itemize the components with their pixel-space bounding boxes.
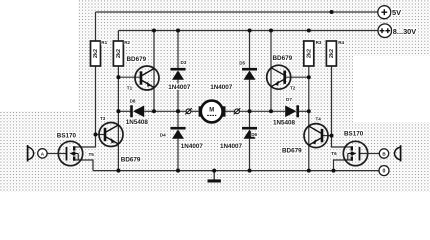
- terminal +5V: [378, 6, 401, 19]
- diode D6 1N4007: [220, 127, 258, 150]
- wire T1 base: [118, 76, 140, 78]
- svg-text:R2: R2: [124, 40, 130, 45]
- diode D5 1N4007: [210, 61, 257, 91]
- svg-text:BD679: BD679: [127, 56, 147, 63]
- svg-text:T2: T2: [290, 86, 296, 91]
- node 0 (ground terminal): [379, 166, 389, 176]
- svg-text:BD679: BD679: [273, 55, 293, 62]
- wire R1 column to T3 base and T5 drain: [81, 66, 96, 147]
- wire D4 column top: [177, 111, 179, 127]
- svg-text:T5: T5: [89, 152, 95, 157]
- wire 8...30V rail: [118, 30, 378, 32]
- svg-text:1N4007: 1N4007: [181, 143, 204, 150]
- wire motor row to left connector: [154, 110, 186, 112]
- resistor R4 2k2: [326, 40, 344, 66]
- motor M: [199, 101, 226, 123]
- wire D7 cathode to T4 collector node: [299, 110, 309, 112]
- wire input A to T5 gate: [47, 153, 58, 155]
- wire 5V rail corner down to R1: [95, 12, 97, 41]
- svg-text:0: 0: [383, 169, 386, 175]
- svg-text:8...30V: 8...30V: [393, 27, 416, 36]
- wire R2 column through T1 base, motor row, T3 to ground rail: [117, 66, 119, 171]
- svg-text:1N4007: 1N4007: [168, 84, 191, 91]
- svg-text:BD679: BD679: [282, 147, 302, 154]
- svg-text:T6: T6: [331, 151, 337, 156]
- wire D4 column bottom: [177, 139, 179, 171]
- svg-text:2k2: 2k2: [93, 49, 99, 58]
- wire rail2 corner down to R2: [117, 31, 119, 42]
- wire D6 column bottom: [249, 139, 251, 171]
- wire ground rail: [93, 170, 379, 172]
- connector right of motor: [234, 108, 241, 114]
- resistor R2 2k2: [113, 40, 130, 66]
- transistor T1 BD679: [127, 56, 160, 91]
- svg-text:T3: T3: [100, 116, 106, 121]
- wire D3 column bottom: [177, 80, 179, 112]
- wire T5 source to ground rail: [81, 160, 93, 171]
- wire D5 column bottom: [249, 80, 251, 112]
- wire right connector to motor right node: [239, 110, 285, 112]
- resistor R1 2k2: [91, 40, 108, 66]
- wire motor row node left: [118, 110, 130, 112]
- ground: [208, 171, 221, 183]
- wire T3 base stub: [96, 134, 105, 136]
- svg-text:5V: 5V: [392, 8, 401, 17]
- svg-text:D5: D5: [239, 61, 245, 66]
- diode D4 1N4007: [160, 127, 204, 150]
- svg-text:1N5408: 1N5408: [126, 119, 149, 126]
- transistor T4 BD679: [282, 117, 328, 155]
- svg-text:D8: D8: [130, 99, 136, 104]
- node A: [38, 149, 47, 158]
- svg-text:2k2: 2k2: [116, 49, 122, 58]
- svg-text:1N4007: 1N4007: [220, 143, 243, 150]
- terminal 8...30V: [378, 24, 416, 38]
- svg-text:T4: T4: [316, 117, 322, 122]
- wire T2 base: [286, 76, 309, 78]
- wire D6 column top: [249, 111, 251, 127]
- svg-text:D7: D7: [286, 97, 292, 102]
- input flag A: [28, 145, 34, 162]
- wire left connector to motor: [191, 110, 199, 112]
- svg-text:D3: D3: [181, 60, 187, 65]
- transistor T3 BD679: [99, 116, 141, 163]
- svg-text:D4: D4: [160, 133, 166, 138]
- wire T4 base stub: [323, 135, 332, 137]
- wire motor to right connector: [226, 110, 235, 112]
- wire T6 gate to input B: [368, 153, 379, 155]
- svg-text:BS170: BS170: [57, 132, 77, 139]
- connector left of motor: [185, 108, 192, 114]
- node B: [379, 149, 388, 158]
- svg-text:R1: R1: [101, 40, 107, 45]
- wire D3 column top: [177, 31, 179, 69]
- svg-text:D6: D6: [251, 132, 257, 137]
- mosfet T6 BS170: [331, 131, 368, 166]
- svg-text:T1: T1: [127, 86, 133, 91]
- wire T1 collector-emitter vertical: [153, 31, 155, 112]
- transistor T2 BD679: [267, 55, 296, 91]
- diode D7 1N5408: [273, 97, 299, 127]
- svg-text:BS170: BS170: [344, 131, 364, 138]
- svg-text:R4: R4: [338, 40, 344, 45]
- wire R3 column through T2 base, motor row, T4 to ground rail: [308, 66, 310, 171]
- wire T6 source to ground rail: [334, 160, 346, 171]
- diode D8 1N5408: [126, 99, 149, 127]
- wire D8 to T1 emitter node: [144, 110, 154, 112]
- wire R4 column to T4 base and T6 drain: [332, 66, 345, 147]
- resistor R3 2k2: [304, 40, 322, 66]
- svg-text:BD679: BD679: [121, 156, 141, 163]
- mosfet T5 BS170: [57, 132, 95, 165]
- svg-text:2k2: 2k2: [329, 49, 335, 58]
- svg-text:1N5408: 1N5408: [273, 120, 296, 127]
- diode D3 1N4007: [168, 60, 191, 91]
- svg-text:M: M: [209, 107, 214, 113]
- wire T2 collector-emitter vertical: [270, 31, 272, 112]
- wire +5V rail: [96, 11, 378, 13]
- wire D5 column top: [249, 31, 251, 69]
- svg-text:R3: R3: [316, 40, 322, 45]
- svg-text:2k2: 2k2: [307, 49, 313, 58]
- svg-text:1N4007: 1N4007: [210, 84, 233, 91]
- input flag B: [394, 145, 400, 161]
